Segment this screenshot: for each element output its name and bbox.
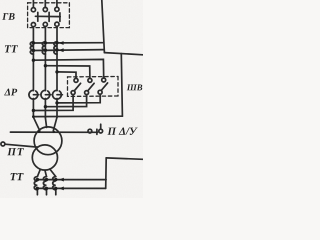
transformer ПТ secondary circle — [32, 145, 57, 170]
breaker ГВ pole 3 contacts — [55, 7, 59, 11]
breaker ГВ pole 1 contacts — [31, 8, 35, 12]
wire phase A lower column — [32, 99, 34, 118]
wire to right edge upper — [104, 53, 143, 55]
reactor Др phase A — [29, 90, 39, 99]
wire funnel phase B into transformer — [45, 118, 46, 128]
CT TT bottom coil phase B — [43, 177, 46, 190]
bypass switch contact 2 — [88, 78, 92, 82]
junction dot loop at phase A — [32, 115, 35, 118]
CT TT coil phase C — [54, 42, 57, 54]
wire funnel phase A into transformer — [33, 117, 39, 131]
wire phase C top entry — [56, 0, 58, 7]
wire bottom CT stems below — [36, 190, 38, 195]
switch П Д/У terminal 2 — [99, 129, 103, 133]
wire funnel phase C into transformer — [53, 117, 57, 131]
wire bypass return 3 to phase C — [57, 94, 100, 103]
wire phase B top entry — [44, 0, 46, 8]
wire TT secondary tap lower — [33, 49, 103, 52]
label ПТ (furnace transformer) — [7, 148, 24, 155]
CT TT bottom coil phase A — [34, 177, 37, 190]
wire bottom bus vertical — [105, 158, 108, 189]
wire bypass return 1 to phase A — [33, 95, 73, 111]
label Др (reactor) — [4, 89, 17, 96]
bypass switch contact 3 — [102, 78, 106, 82]
breaker ГВ blade pole 3 — [59, 13, 61, 22]
reactor Др phase B — [41, 90, 51, 99]
CT TT bottom coil phase C — [53, 177, 56, 190]
label ГВ (main breaker) — [2, 13, 14, 20]
CT TT coil phase A — [30, 42, 33, 54]
junction dots bypass taps — [32, 59, 35, 62]
arrowhead TT tap upper — [59, 41, 64, 45]
wire TT secondary tap upper — [33, 42, 103, 44]
paper background — [0, 0, 143, 198]
junction dot control line / phase C diagonal — [53, 131, 55, 133]
bypass switch contact 1 — [74, 78, 78, 82]
wire tap B to bypass switch — [45, 66, 90, 79]
terminal circle left — [1, 142, 5, 146]
label ШВ (bypass switch) — [127, 85, 143, 91]
wire phase B column — [44, 27, 46, 91]
junction dots bypass returns — [32, 109, 35, 112]
wire TT secondary bus vertical — [102, 0, 105, 53]
wire transformer to bottom CT phase A — [37, 169, 40, 176]
wire transformer to bottom CT phase C — [50, 169, 56, 177]
wire bottom bus to right edge — [106, 158, 143, 159]
arrowhead bottom tap upper — [59, 178, 64, 182]
wire phase B lower column — [44, 99, 46, 118]
wire bottom secondary tap upper — [37, 179, 106, 181]
wire phase A column — [32, 27, 34, 91]
wire control line across transformer — [10, 131, 97, 133]
junction dots bottom CT taps — [36, 178, 39, 181]
wire phase C column — [56, 26, 58, 90]
label ТТ (current transformers, lower) — [11, 173, 24, 180]
wire bottom secondary tap lower — [37, 187, 105, 189]
arrowhead TT tap lower — [59, 48, 64, 52]
junction dots TT taps — [32, 41, 64, 190]
label ТТ (current transformers, upper) — [5, 45, 18, 52]
wire tap C to bypass switch — [57, 72, 76, 78]
wire bypass loop bottom — [33, 115, 122, 117]
breaker ГВ blade pole 1 — [37, 12, 39, 21]
arrowhead bottom tap lower — [59, 187, 64, 191]
switch П Д/У tick — [96, 129, 98, 134]
switch П Д/У terminal 1 — [88, 129, 92, 133]
reactor Др phase C — [53, 90, 63, 99]
breaker ГВ blade pole 2 — [48, 12, 50, 21]
wire tap A to bypass switch — [33, 59, 103, 78]
breaker ГВ linkage bar — [35, 15, 60, 17]
wire phase C lower column — [56, 99, 58, 118]
wire bypass return 2 to phase B — [45, 95, 86, 107]
wire phase A top entry — [32, 0, 34, 8]
scan noise overlay — [0, 0, 1, 1]
transformer ПТ primary circle — [34, 127, 62, 155]
breaker ГВ enclosure (dashed box) — [28, 3, 70, 28]
bypass switch ШВ enclosure (dashed box) — [68, 77, 119, 97]
junction dot control line / phase A diagonal — [38, 131, 40, 133]
wire bypass loop vertical — [121, 54, 122, 117]
breaker ГВ pole 2 contacts — [43, 7, 47, 11]
CT TT coil phase B — [42, 42, 45, 54]
switch П Д/У blade — [100, 124, 102, 129]
label П Д/У (tap changer switch) — [107, 128, 137, 135]
wire transformer to bottom CT phase B — [45, 170, 47, 177]
wire from left terminal to transformer — [5, 144, 38, 147]
